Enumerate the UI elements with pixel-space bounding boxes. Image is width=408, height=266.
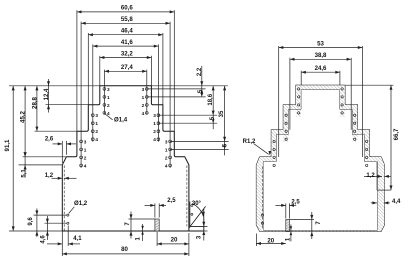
svg-text:2,5: 2,5	[291, 200, 300, 206]
svg-text:2: 2	[142, 103, 145, 108]
svg-text:18,6: 18,6	[208, 93, 214, 105]
right figure hatched wall band	[256, 85, 384, 231]
ext line right wall down	[188, 233, 190, 256]
svg-text:3: 3	[165, 139, 168, 144]
svg-text:4,6: 4,6	[41, 235, 47, 244]
svg-text:5,1: 5,1	[22, 169, 28, 178]
dim 1 rib	[142, 224, 144, 241]
right figure inner band edge	[263, 90, 377, 231]
dim 4,4 right wall	[371, 202, 377, 204]
svg-text:1: 1	[142, 95, 145, 100]
right figure holes left staircase	[261, 88, 299, 225]
dim 53 top	[279, 47, 363, 49]
svg-text:2,2: 2,2	[197, 67, 203, 76]
svg-text:4: 4	[95, 137, 98, 142]
svg-text:35: 35	[219, 110, 225, 117]
svg-text:1: 1	[107, 95, 110, 100]
ext line bottom to far left	[9, 230, 62, 232]
hole column level2 left with pin numbers	[91, 113, 98, 142]
right figure deep wall strips hatch	[296, 105, 301, 117]
dim 1,2 right wall	[364, 175, 382, 177]
ext line rib for 20	[156, 232, 158, 246]
dim 1 rib right fig	[290, 225, 292, 242]
svg-text:2: 2	[107, 103, 110, 108]
dim 20 right fig	[255, 234, 257, 247]
ext line wall left down	[61, 231, 63, 256]
svg-text:4,4: 4,4	[392, 199, 401, 205]
dim 20 bottom	[157, 243, 189, 245]
dim 2,5 rib ext lines	[154, 203, 156, 217]
hole column level2 right with pin numbers	[153, 113, 160, 142]
svg-text:Ø1,4: Ø1,4	[114, 117, 128, 124]
svg-text:4: 4	[153, 137, 156, 142]
svg-text:4: 4	[84, 163, 87, 168]
svg-text:30°: 30°	[192, 201, 202, 207]
dim 5 level2 right	[212, 119, 215, 123]
svg-text:80: 80	[121, 246, 128, 253]
dim 4,6 left lower	[45, 222, 67, 224]
svg-text:91,1: 91,1	[4, 139, 11, 151]
svg-text:3: 3	[84, 139, 87, 144]
right figure outline	[256, 85, 384, 231]
dim 46,4 top	[88, 34, 163, 36]
right flange chamfer top line	[189, 225, 204, 227]
ext line level4 deck to left	[23, 156, 67, 158]
svg-text:2: 2	[165, 155, 168, 160]
svg-text:4,1: 4,1	[73, 236, 82, 242]
svg-text:12,4: 12,4	[44, 88, 50, 100]
flange hole lower	[191, 213, 193, 215]
flange hole upper	[191, 204, 193, 206]
dim 91,1 left	[12, 86, 14, 231]
right figure holes right staircase	[341, 88, 368, 167]
svg-text:2: 2	[153, 129, 156, 134]
svg-text:53: 53	[317, 40, 324, 47]
svg-text:27,4: 27,4	[121, 64, 133, 71]
label dia 1.2 with leader	[69, 207, 75, 214]
left figure inner wall hidden edge right	[186, 165, 188, 226]
dim 2,5 rib	[145, 204, 155, 206]
svg-text:2,5: 2,5	[167, 198, 176, 204]
svg-text:3: 3	[153, 113, 156, 118]
dim 2,2 right	[201, 66, 203, 95]
dim 2,5 rib right fig	[285, 203, 287, 218]
svg-text:45,2: 45,2	[20, 110, 27, 122]
ext row lines right side	[151, 85, 227, 87]
svg-text:66,7: 66,7	[394, 128, 400, 140]
left wall hole lower dia 1.2	[67, 222, 69, 224]
bottom rib hatched	[155, 219, 159, 231]
svg-text:46,4: 46,4	[121, 28, 133, 35]
svg-text:1: 1	[153, 121, 156, 126]
label dia 1.4 with leader	[105, 114, 113, 120]
svg-text:Ø1,2: Ø1,2	[74, 200, 88, 207]
left figure inner wall hidden edge left	[63, 165, 65, 230]
dim 60,6 top	[77, 11, 174, 13]
dim 7 rib right fig	[289, 219, 314, 221]
svg-text:32,2: 32,2	[121, 50, 133, 57]
dim 2,6 wall top	[61, 141, 63, 163]
dim 18,6 right	[212, 86, 214, 129]
dim 45,2 left	[24, 86, 26, 157]
ext line level3 top to left	[35, 130, 77, 132]
svg-text:3: 3	[95, 113, 98, 118]
svg-text:3: 3	[142, 87, 145, 92]
dim 12,4 left	[48, 79, 50, 113]
svg-text:38,8: 38,8	[315, 52, 327, 59]
dim 24,6 top	[301, 71, 340, 73]
left figure housing outline	[62, 86, 204, 231]
dim 5,1 left small	[24, 157, 26, 178]
30deg angle arc	[192, 203, 203, 216]
right figure inner wall hidden edge left	[262, 167, 264, 230]
hole column level1 right with pin numbers	[142, 87, 149, 116]
svg-text:60,6: 60,6	[121, 5, 133, 12]
svg-text:41,6: 41,6	[121, 39, 133, 46]
svg-text:2,6: 2,6	[45, 137, 54, 143]
dim 3 flange right ext lines	[189, 225, 208, 227]
dim 32,2 top	[100, 57, 152, 59]
dim 5 level3 right	[223, 146, 226, 150]
svg-text:1,2: 1,2	[45, 173, 54, 179]
svg-text:20: 20	[171, 236, 178, 243]
svg-text:1: 1	[165, 147, 168, 152]
svg-text:1: 1	[95, 121, 98, 126]
svg-text:9,6: 9,6	[28, 217, 34, 226]
dim 1,2 wall thickness	[52, 177, 63, 179]
svg-text:4: 4	[142, 111, 145, 116]
svg-text:20: 20	[267, 237, 274, 244]
dim 35 right	[224, 86, 226, 156]
dim 7 rib height	[129, 218, 155, 220]
extension lines top dims left	[76, 10, 78, 131]
svg-text:3: 3	[107, 87, 110, 92]
left wall hole upper dia 1.2	[67, 214, 69, 216]
hole column level3 right with pin numbers	[165, 139, 172, 168]
dim 3 flange vertical	[203, 219, 205, 241]
dim 9,6 left lower	[34, 214, 67, 216]
svg-text:1: 1	[84, 147, 87, 152]
right flange 30deg chamfer edge	[189, 206, 205, 227]
svg-text:4: 4	[165, 163, 168, 168]
svg-text:55,8: 55,8	[121, 16, 133, 23]
ext line level2 top to left	[46, 104, 89, 106]
dim 27,4 top	[104, 70, 146, 72]
ext line wall top to left	[19, 164, 63, 166]
svg-text:2: 2	[84, 155, 87, 160]
dim 41,6 top	[93, 45, 159, 47]
svg-text:1,2: 1,2	[366, 173, 375, 179]
dim 80 bottom	[62, 253, 189, 255]
dim 55,8 top	[81, 22, 170, 24]
hole column level1 left with pin numbers	[103, 87, 110, 116]
ext line top edge to far left	[9, 85, 100, 87]
dim 4,1 bottom	[47, 243, 62, 245]
svg-text:4: 4	[107, 111, 110, 116]
right figure bottom rib hatched	[286, 220, 290, 232]
dim 28,8 left	[36, 86, 38, 131]
ext lines right figure top dims	[278, 46, 280, 157]
hole column level3 left with pin numbers	[80, 139, 87, 168]
right slot detail in right wall	[376, 162, 378, 190]
extension lines top dims right	[173, 10, 175, 131]
svg-text:24,6: 24,6	[315, 65, 327, 72]
svg-text:28,8: 28,8	[31, 96, 38, 108]
dim 38,8 top	[290, 58, 351, 60]
right flange right edge	[203, 209, 205, 231]
svg-text:2: 2	[95, 129, 98, 134]
dim 66,7 right	[345, 84, 393, 86]
ext hole col down for 4,1	[67, 226, 69, 247]
